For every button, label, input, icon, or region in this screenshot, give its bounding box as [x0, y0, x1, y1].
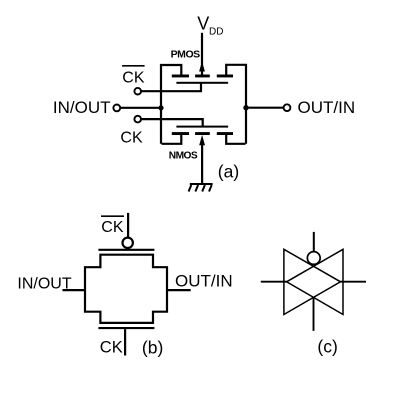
wire left (c): [261, 281, 287, 283]
label CKbar (a): [122, 66, 145, 87]
wire top (c): [313, 232, 315, 252]
PMOS gate lead to CKbar: [141, 84, 201, 92]
terminal bubble CK: [134, 116, 141, 123]
wire right (c): [340, 281, 366, 283]
node junction left rail: [158, 105, 163, 110]
NMOS bulk arrow (pointing up from ground): [199, 135, 205, 145]
triangle pointing right (c): [284, 249, 341, 314]
terminal bubble CKbar: [134, 88, 141, 95]
gate bubble (c): [307, 252, 320, 265]
NMOS drain lead: [226, 134, 245, 144]
gate bubble (b): [123, 238, 133, 248]
svg-text:OUT/IN: OUT/IN: [298, 98, 356, 117]
terminal circle IN/OUT: [113, 105, 120, 112]
transmission gate body (b): [85, 255, 167, 323]
svg-text:CK: CK: [101, 219, 124, 236]
PMOS bulk arrow (pointing up to VDD): [199, 61, 205, 71]
wire IN/OUT (b): [63, 289, 86, 291]
wire CK to NMOS gate: [141, 119, 203, 126]
svg-text:NMOS: NMOS: [169, 151, 198, 162]
ground: [189, 184, 213, 192]
svg-text:IN/OUT: IN/OUT: [53, 98, 111, 117]
triangle pointing left (c): [287, 249, 343, 314]
PMOS drain lead + right rail: [226, 65, 246, 144]
transistor NMOS contacts: [172, 132, 233, 135]
svg-text:OUT/IN: OUT/IN: [175, 271, 233, 290]
label CKbar (b): [101, 216, 124, 236]
top gate bar (b): [98, 249, 154, 251]
wire OUT/IN (b): [167, 289, 191, 291]
svg-text:DD: DD: [209, 27, 223, 38]
wire NMOS bulk to ground: [201, 140, 203, 184]
wire CKbar to bubble (b): [127, 213, 129, 238]
bottom gate bar (b): [98, 327, 154, 329]
NMOS gate bar: [176, 126, 228, 128]
PMOS source lead + left rail: [161, 65, 181, 144]
wire CK (b): [124, 329, 126, 355]
svg-text:CK: CK: [120, 129, 143, 146]
node junction right rail: [243, 105, 248, 110]
transistor PMOS contacts: [172, 75, 233, 78]
wire right rail to OUT/IN: [246, 107, 284, 109]
svg-text:CK: CK: [100, 338, 123, 356]
svg-text:PMOS: PMOS: [171, 48, 201, 60]
terminal circle OUT/IN: [284, 104, 291, 111]
wire IN/OUT to left rail: [120, 107, 161, 109]
wire VDD to PMOS bulk: [201, 33, 203, 76]
wire bottom (c): [313, 298, 315, 331]
svg-text:V: V: [197, 14, 209, 34]
NMOS source lead: [162, 134, 182, 144]
svg-text:(b): (b): [142, 338, 163, 358]
svg-text:CK: CK: [122, 69, 145, 86]
svg-text:(c): (c): [317, 337, 337, 357]
label VDD: [197, 14, 223, 38]
PMOS gate bar: [176, 82, 228, 84]
svg-text:(a): (a): [218, 162, 239, 182]
